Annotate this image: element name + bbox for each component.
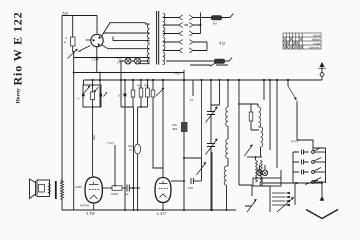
wire antenna top <box>62 16 97 182</box>
junction <box>73 51 75 53</box>
resistor heater row <box>214 59 225 64</box>
trimmer arrow ant <box>68 50 78 59</box>
wire winding taps <box>97 23 150 64</box>
svg-text:0.063: 0.063 <box>111 192 119 196</box>
wire lamp row <box>119 60 214 62</box>
wire cathode diagonal <box>78 46 91 52</box>
svg-text:50µ: 50µ <box>137 84 142 88</box>
svg-text:Rio W E 122: Rio W E 122 <box>11 12 25 86</box>
wire band line y71 <box>74 72 184 74</box>
capacitor m3 <box>293 170 309 175</box>
wire v163 <box>162 80 164 177</box>
earth symbol <box>321 183 323 201</box>
capacitor electrolytic <box>135 144 141 154</box>
capacitor P50 <box>191 178 193 184</box>
svg-text:50µ: 50µ <box>144 84 149 88</box>
loudspeaker <box>30 179 36 199</box>
potentiometer arrow mid <box>197 163 206 175</box>
svg-text:4R5: 4R5 <box>172 127 178 131</box>
wire block links <box>245 178 270 206</box>
svg-text:A487: A487 <box>75 185 82 189</box>
switch contact row 1 <box>163 17 211 19</box>
inductor L bf3 <box>224 166 228 185</box>
junction dots bus <box>92 79 290 81</box>
title text Rio W E 122 <box>11 12 25 104</box>
wire lamp drop <box>260 165 266 170</box>
wire U1 <box>121 80 134 210</box>
wire v193 <box>192 80 194 96</box>
wire to tube grid <box>96 16 98 34</box>
resistor dark RIK <box>183 70 185 122</box>
capacitor m1 <box>293 150 309 155</box>
svg-text:+125: +125 <box>107 141 114 145</box>
tube V1 mixer <box>91 34 103 46</box>
svg-text:Horny: Horny <box>16 88 22 104</box>
switch lever right <box>288 86 296 99</box>
wire v212 <box>211 152 213 210</box>
svg-text:E: E <box>117 94 121 98</box>
wire verticals left <box>84 61 126 210</box>
trimmer arrow box left <box>84 87 90 94</box>
wire mains bottom <box>262 182 322 184</box>
wire v220 <box>211 80 220 105</box>
lamp La1 <box>125 58 131 64</box>
wire box drops <box>92 107 94 176</box>
wire tube3 anode <box>171 180 184 182</box>
switch m2 <box>312 161 315 164</box>
resistor R ant <box>71 37 76 46</box>
resistor group g1 <box>140 80 142 88</box>
wire plate feed V2 <box>114 145 116 186</box>
svg-text:25: 25 <box>129 148 133 152</box>
switch contact row 4 <box>163 41 207 43</box>
wire v264 <box>263 80 265 100</box>
wire det box <box>184 158 202 181</box>
svg-text:+4.5: +4.5 <box>174 72 181 76</box>
wire tube cathode <box>96 47 98 73</box>
wire mains verticals <box>293 140 326 183</box>
svg-text:Rd: Rd <box>213 22 217 26</box>
tube V3 <box>155 178 171 203</box>
transformer Tr1 left winding <box>147 24 149 63</box>
wire IF mid <box>247 156 262 158</box>
potentiometer arrow block <box>247 200 256 212</box>
svg-text:µ: µ <box>64 40 66 44</box>
contact square Er <box>124 94 127 97</box>
lamp La2 <box>135 58 141 64</box>
capacitor m2 <box>293 160 309 165</box>
wire transformer to rail <box>62 209 236 211</box>
wire left drop <box>73 52 75 210</box>
svg-text:µF: µF <box>125 192 129 196</box>
wire v202 <box>201 80 203 158</box>
transformer Tr1 core <box>157 11 159 65</box>
connector block arrows <box>269 186 271 212</box>
svg-text:50µ: 50µ <box>92 135 96 140</box>
svg-text:µ2 µF: µ2 µF <box>291 139 299 143</box>
variable capacitor C bf2 <box>207 144 215 147</box>
tube V2 output <box>85 177 102 203</box>
svg-text:+: + <box>77 96 80 101</box>
svg-text:+C1: +C1 <box>117 61 123 65</box>
svg-text:4 Ω: 4 Ω <box>219 41 225 46</box>
box oscillator <box>83 85 101 107</box>
output transformer winding <box>61 181 64 199</box>
wire verticals right <box>270 80 288 168</box>
wire bottom rail drop <box>125 209 133 211</box>
resistor IF <box>250 104 252 112</box>
terminal Erde arrow <box>321 77 323 81</box>
switch contact row 3 <box>163 33 201 35</box>
resistor Rd <box>211 15 222 20</box>
lamp pair bottom <box>257 170 262 175</box>
trimmer arrow g4 <box>156 89 164 97</box>
inductor IF1 <box>259 107 261 127</box>
wire U2 <box>138 107 148 144</box>
capacitor coupling <box>127 185 129 192</box>
svg-text:WW82: WW82 <box>80 204 90 208</box>
svg-text:L 417: L 417 <box>156 211 167 216</box>
wire grid coupling <box>102 187 112 189</box>
resistor 0.063 <box>112 186 122 191</box>
wire main bus <box>84 79 323 81</box>
variable capacitor C bf1 <box>210 80 212 111</box>
speaker coil zigzag <box>48 184 51 195</box>
switch m1 <box>312 151 315 154</box>
table wave bands <box>283 33 321 50</box>
wire IF left <box>239 80 252 196</box>
wire tube anode diagonal <box>102 23 146 37</box>
inductor L bf2 <box>226 139 228 158</box>
svg-text:P50: P50 <box>188 186 193 190</box>
wire break arrow right <box>104 92 108 97</box>
switch inline y65 <box>190 64 228 66</box>
wire tube leads right <box>103 33 149 41</box>
arrow onto pot <box>95 87 99 92</box>
switch lever mains <box>305 180 318 185</box>
switch contact row 2 <box>163 24 201 26</box>
wire contact bus <box>201 13 208 51</box>
switch m4 <box>312 181 315 184</box>
resistor group g2 <box>147 80 149 88</box>
wire long y57 <box>74 57 97 59</box>
svg-text:Sperrkr.: Sperrkr. <box>309 46 320 50</box>
svg-text:Fr: Fr <box>189 98 194 102</box>
output transformer core <box>55 181 57 199</box>
switch lever block <box>277 198 293 212</box>
switch m3 <box>312 171 315 174</box>
svg-text:5 TW: 5 TW <box>86 211 95 216</box>
contact squares <box>82 94 85 97</box>
capacitor g3 <box>152 80 154 90</box>
switch contact row 5 <box>163 50 207 52</box>
IF transformer zigzag <box>256 160 258 182</box>
wire IF top <box>239 104 258 107</box>
potentiometer box <box>91 92 95 100</box>
inductor IF2 <box>259 127 263 147</box>
wire speaker links <box>61 181 63 210</box>
transformer Tr1 right winding <box>163 13 165 65</box>
inductor L bf1 <box>227 80 229 107</box>
trimmer arrow IF <box>245 146 253 157</box>
svg-text:Ant: Ant <box>62 11 69 16</box>
capacitor g0 <box>132 80 134 90</box>
